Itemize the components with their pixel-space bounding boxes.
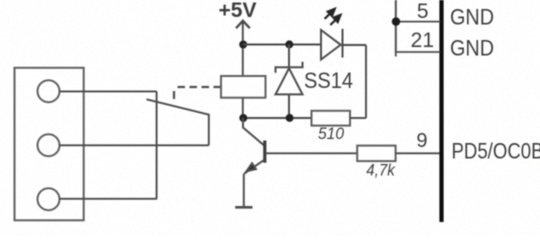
GND net vertical from top bbox=[395, 0, 397, 52]
ground bbox=[235, 206, 252, 209]
svg-text:SS14: SS14 bbox=[304, 68, 353, 93]
svg-text:9: 9 bbox=[416, 130, 427, 152]
pin 21 stub left tail bbox=[395, 52, 397, 57]
pin 21 stub bbox=[396, 51, 440, 53]
wire emitter to ground bbox=[243, 174, 245, 206]
wire coil bottom to collector node bbox=[242, 98, 244, 118]
svg-text:4,7k: 4,7k bbox=[366, 161, 396, 180]
wire switch vertical to pin3 net bbox=[156, 91, 158, 198]
svg-text:PD5/OC0B: PD5/OC0B bbox=[452, 139, 540, 164]
wire pin1 to switch contact bbox=[60, 90, 157, 92]
transistor Q1 base bar bbox=[263, 141, 266, 163]
node dot SS14 anode bbox=[286, 114, 294, 122]
top rail wire to LED anode bbox=[243, 44, 321, 46]
IC edge (microcontroller) bbox=[439, 0, 443, 222]
bottom rail: coil bottom to resistor 510 bbox=[243, 117, 312, 119]
wire LED cathode to right drop bbox=[343, 44, 367, 46]
wire pin2 to switch common bbox=[60, 144, 209, 146]
pin 5 stub bbox=[396, 21, 440, 23]
svg-text:5: 5 bbox=[417, 0, 429, 23]
node dot +5V / top rail bbox=[239, 41, 247, 49]
wire 4,7k to pin 9 bbox=[396, 152, 440, 154]
node dot collector bbox=[239, 114, 247, 122]
svg-text:+5V: +5V bbox=[219, 0, 257, 22]
LED D1 bbox=[321, 29, 343, 60]
wire LED right vertical bbox=[365, 45, 367, 118]
switch mechanical link dashed bbox=[174, 87, 221, 99]
relay coil K1 bbox=[221, 76, 266, 98]
terminal block pin 1 circle bbox=[38, 80, 60, 102]
switch blade S1 bbox=[147, 99, 210, 115]
terminal block pin 3 circle bbox=[38, 188, 60, 210]
transistor Q1 collector wire bbox=[243, 118, 264, 146]
svg-text:510: 510 bbox=[318, 124, 344, 143]
wire 510 to LED vertical bbox=[350, 117, 366, 119]
+5V arrow bbox=[236, 21, 250, 28]
resistor R2 510 body bbox=[312, 111, 351, 126]
svg-text:GND: GND bbox=[450, 35, 494, 60]
wire switch common vertical bbox=[208, 114, 210, 145]
LED emission arrows bbox=[325, 9, 341, 25]
resistor R1 4,7k body bbox=[357, 146, 395, 162]
svg-text:21: 21 bbox=[411, 29, 434, 52]
transistor Q1 emitter with arrow bbox=[244, 160, 264, 174]
node dot pin5 bbox=[392, 17, 400, 25]
base wire to resistor 4,7k bbox=[267, 152, 358, 154]
wire +5V down to relay coil bbox=[242, 22, 244, 77]
wire pin3 to switch vertical bbox=[60, 198, 158, 200]
diode SS14 (schottky) bbox=[276, 45, 303, 119]
terminal block X1 body bbox=[15, 68, 84, 221]
terminal block pin 2 circle bbox=[38, 134, 60, 156]
node dot SS14 cathode bbox=[285, 40, 293, 48]
svg-text:GND: GND bbox=[450, 4, 494, 29]
